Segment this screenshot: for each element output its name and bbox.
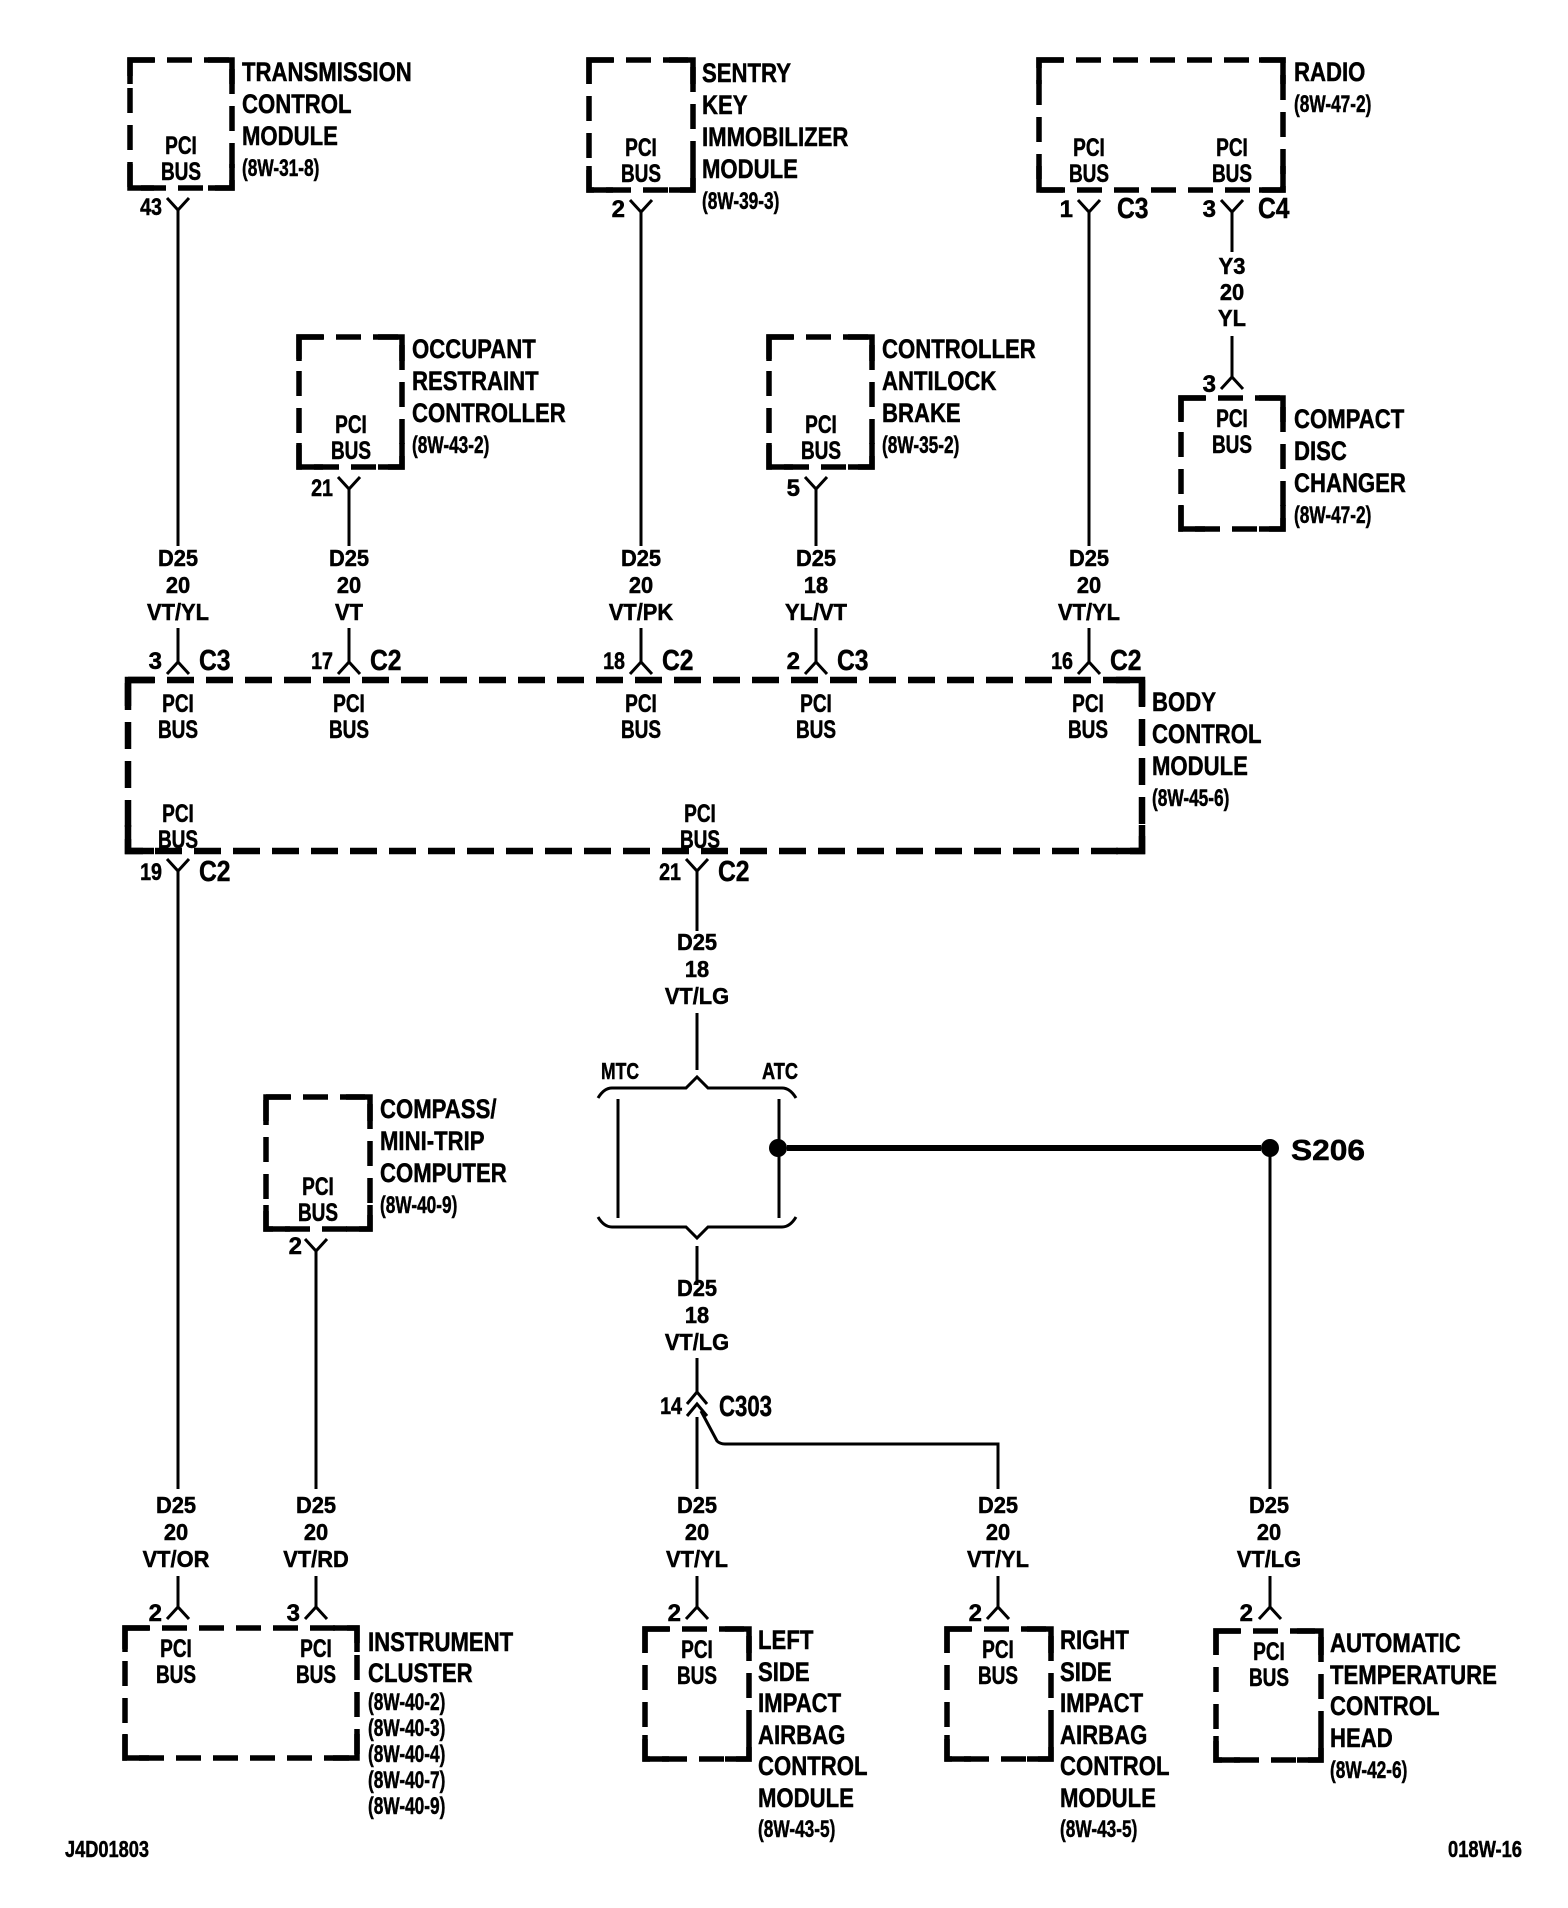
module box: right side impact airbag control module [947, 1629, 1051, 1759]
svg-text:YL/VT: YL/VT [785, 599, 847, 625]
svg-text:(8W-43-5): (8W-43-5) [1060, 1816, 1137, 1843]
wire: C303 down to left side impact airbag control module, D25 20 VT/YL [696, 1417, 699, 1489]
svg-text:Y3: Y3 [1219, 253, 1246, 279]
svg-text:BUS: BUS [801, 437, 841, 465]
svg-text:PCI: PCI [333, 690, 365, 718]
svg-text:S206: S206 [1291, 1135, 1365, 1167]
svg-text:D25: D25 [796, 545, 836, 571]
svg-text:D25: D25 [1069, 545, 1109, 571]
svg-text:BUS: BUS [158, 826, 198, 854]
wire: radio pin 1 C3 down to BCM pin 16 C2, D25 20 VT/YL [1088, 212, 1091, 546]
svg-text:C4: C4 [1258, 193, 1290, 225]
brace: option split top [598, 1077, 796, 1098]
svg-text:BUS: BUS [161, 158, 201, 186]
svg-text:C2: C2 [662, 645, 694, 677]
svg-text:2: 2 [668, 1600, 681, 1627]
svg-text:D25: D25 [158, 545, 198, 571]
module box: controller antilock brake [769, 337, 872, 467]
svg-text:VT/YL: VT/YL [666, 1546, 728, 1572]
svg-text:VT/PK: VT/PK [609, 599, 674, 625]
svg-text:D25: D25 [156, 1492, 196, 1518]
svg-text:BUS: BUS [1069, 160, 1109, 188]
wire: MTC branch vertical [617, 1099, 620, 1218]
svg-text:VT: VT [335, 599, 363, 625]
svg-text:2: 2 [149, 1600, 162, 1627]
svg-text:TRANSMISSION: TRANSMISSION [242, 57, 412, 87]
splice S206 dot [1261, 1139, 1279, 1157]
svg-text:PCI: PCI [160, 1635, 192, 1663]
svg-text:RIGHT: RIGHT [1060, 1625, 1129, 1655]
svg-text:SIDE: SIDE [1060, 1657, 1112, 1687]
svg-text:14: 14 [660, 1393, 682, 1420]
svg-text:20: 20 [337, 572, 361, 598]
svg-text:18: 18 [685, 956, 709, 982]
svg-text:COMPUTER: COMPUTER [380, 1158, 507, 1188]
wire: TCM pin 43 down to BCM pin 3 C3, D25 20 VT/YL [177, 210, 180, 546]
module box: compass/mini-trip computer [266, 1097, 370, 1229]
svg-text:TEMPERATURE: TEMPERATURE [1330, 1660, 1497, 1690]
svg-text:(8W-40-3): (8W-40-3) [368, 1715, 445, 1742]
svg-text:CHANGER: CHANGER [1294, 468, 1406, 498]
svg-text:5: 5 [787, 475, 800, 502]
svg-text:MINI-TRIP: MINI-TRIP [380, 1126, 485, 1156]
svg-text:C2: C2 [370, 645, 402, 677]
svg-text:(8W-31-8): (8W-31-8) [242, 155, 319, 182]
svg-text:IMPACT: IMPACT [758, 1688, 842, 1718]
svg-text:2: 2 [787, 648, 800, 675]
svg-text:(8W-40-9): (8W-40-9) [380, 1192, 457, 1219]
svg-text:(8W-47-2): (8W-47-2) [1294, 91, 1371, 118]
svg-text:CONTROL: CONTROL [1060, 1751, 1170, 1781]
svg-text:AIRBAG: AIRBAG [1060, 1720, 1147, 1750]
svg-text:D25: D25 [296, 1492, 336, 1518]
svg-text:(8W-40-7): (8W-40-7) [368, 1767, 445, 1794]
wire: radio pin 3 C4 down to CD changer, Y3 20 YL [1231, 212, 1234, 252]
svg-text:C2: C2 [718, 856, 750, 888]
svg-text:(8W-43-5): (8W-43-5) [758, 1816, 835, 1843]
svg-text:20: 20 [304, 1519, 328, 1545]
wire: S206 down to automatic temperature control head, D25 20 VT/LG [1269, 1148, 1272, 1489]
svg-text:20: 20 [629, 572, 653, 598]
module box: left side impact airbag control module [645, 1629, 749, 1759]
svg-text:BODY: BODY [1152, 687, 1216, 717]
svg-text:(8W-43-2): (8W-43-2) [412, 432, 489, 459]
module box: sentry key immobilizer module [589, 60, 693, 190]
svg-text:BUS: BUS [1068, 716, 1108, 744]
wire: BCM pin 21 C2 down to MTC/ATC splice, D25 18 VT/LG [696, 871, 699, 931]
svg-text:PCI: PCI [625, 134, 657, 162]
svg-text:16: 16 [1051, 648, 1073, 675]
svg-text:VT/RD: VT/RD [283, 1546, 349, 1572]
svg-text:RADIO: RADIO [1294, 57, 1365, 87]
svg-text:1: 1 [1060, 196, 1073, 223]
svg-text:PCI: PCI [300, 1635, 332, 1663]
svg-text:21: 21 [659, 859, 681, 886]
svg-text:VT/YL: VT/YL [147, 599, 209, 625]
svg-text:D25: D25 [1249, 1492, 1289, 1518]
svg-text:BUS: BUS [1249, 1664, 1289, 1692]
wire: splice to S206 horizontal [787, 1145, 1261, 1151]
svg-text:BUS: BUS [621, 160, 661, 188]
svg-text:PCI: PCI [1253, 1638, 1285, 1666]
svg-text:C2: C2 [1110, 645, 1142, 677]
svg-text:VT/YL: VT/YL [1058, 599, 1120, 625]
svg-text:BUS: BUS [331, 437, 371, 465]
svg-text:MODULE: MODULE [1060, 1783, 1156, 1813]
svg-text:PCI: PCI [1073, 134, 1105, 162]
svg-text:BUS: BUS [296, 1661, 336, 1689]
svg-text:IMPACT: IMPACT [1060, 1688, 1144, 1718]
wire: SKIM pin 2 down to BCM pin 18 C2, D25 20 VT/PK [640, 212, 643, 546]
svg-text:AUTOMATIC: AUTOMATIC [1330, 1628, 1461, 1658]
svg-text:C2: C2 [199, 856, 231, 888]
svg-text:2: 2 [289, 1233, 302, 1260]
svg-text:PCI: PCI [162, 690, 194, 718]
svg-text:D25: D25 [677, 1275, 717, 1301]
svg-text:018W-16: 018W-16 [1448, 1836, 1522, 1862]
svg-text:OCCUPANT: OCCUPANT [412, 334, 536, 364]
svg-text:D25: D25 [329, 545, 369, 571]
svg-text:(8W-35-2): (8W-35-2) [882, 432, 959, 459]
svg-text:SENTRY: SENTRY [702, 58, 791, 88]
svg-text:D25: D25 [677, 1492, 717, 1518]
svg-text:2: 2 [1240, 1600, 1253, 1627]
module box: instrument cluster [125, 1628, 357, 1758]
svg-text:BRAKE: BRAKE [882, 398, 961, 428]
svg-text:C303: C303 [719, 1391, 772, 1423]
svg-text:(8W-40-2): (8W-40-2) [368, 1689, 445, 1716]
svg-text:MODULE: MODULE [242, 121, 338, 151]
svg-text:BUS: BUS [158, 716, 198, 744]
svg-text:ATC: ATC [762, 1058, 798, 1084]
svg-text:(8W-40-4): (8W-40-4) [368, 1741, 445, 1768]
svg-text:CONTROL: CONTROL [1330, 1691, 1440, 1721]
svg-text:2: 2 [612, 196, 625, 223]
svg-text:(8W-39-3): (8W-39-3) [702, 188, 779, 215]
junction dot on ATC branch [769, 1139, 787, 1157]
svg-text:COMPASS/: COMPASS/ [380, 1094, 497, 1124]
svg-text:BUS: BUS [156, 1661, 196, 1689]
svg-text:HEAD: HEAD [1330, 1723, 1393, 1753]
svg-text:17: 17 [311, 648, 333, 675]
svg-text:C3: C3 [1117, 193, 1149, 225]
svg-text:PCI: PCI [302, 1173, 334, 1201]
svg-text:BUS: BUS [329, 716, 369, 744]
svg-text:(8W-45-6): (8W-45-6) [1152, 785, 1229, 812]
module box: automatic temperature control head [1216, 1631, 1321, 1760]
svg-text:CONTROLLER: CONTROLLER [412, 398, 566, 428]
svg-text:BUS: BUS [298, 1199, 338, 1227]
svg-text:VT/LG: VT/LG [1237, 1546, 1301, 1572]
svg-text:INSTRUMENT: INSTRUMENT [368, 1627, 514, 1657]
svg-text:PCI: PCI [684, 800, 716, 828]
svg-text:ANTILOCK: ANTILOCK [882, 366, 997, 396]
module box: compact disc changer [1181, 398, 1283, 529]
svg-text:MODULE: MODULE [1152, 751, 1248, 781]
module box: radio [1039, 60, 1283, 190]
svg-text:18: 18 [603, 648, 625, 675]
module box: occupant restraint controller [299, 337, 402, 467]
svg-text:IMMOBILIZER: IMMOBILIZER [702, 122, 848, 152]
svg-text:20: 20 [986, 1519, 1010, 1545]
svg-text:PCI: PCI [681, 1636, 713, 1664]
svg-text:PCI: PCI [1216, 405, 1248, 433]
svg-text:C3: C3 [837, 645, 869, 677]
svg-text:CONTROL: CONTROL [758, 1751, 868, 1781]
module box: body control module [128, 680, 1142, 851]
svg-text:20: 20 [164, 1519, 188, 1545]
svg-text:CONTROL: CONTROL [1152, 719, 1262, 749]
svg-text:C3: C3 [199, 645, 231, 677]
svg-text:D25: D25 [621, 545, 661, 571]
svg-text:PCI: PCI [800, 690, 832, 718]
svg-text:MODULE: MODULE [758, 1783, 854, 1813]
svg-text:PCI: PCI [625, 690, 657, 718]
svg-text:2: 2 [969, 1600, 982, 1627]
svg-text:18: 18 [685, 1302, 709, 1328]
svg-text:VT/LG: VT/LG [665, 983, 729, 1009]
svg-text:CONTROL: CONTROL [242, 89, 352, 119]
svg-text:20: 20 [1077, 572, 1101, 598]
svg-text:BUS: BUS [621, 716, 661, 744]
module box: transmission control module [130, 60, 232, 188]
svg-text:LEFT: LEFT [758, 1625, 814, 1655]
svg-text:PCI: PCI [805, 411, 837, 439]
svg-text:BUS: BUS [978, 1662, 1018, 1690]
svg-text:PCI: PCI [982, 1636, 1014, 1664]
wire: CAB pin 5 down to BCM pin 2 C3, D25 18 YL/VT [815, 489, 818, 546]
svg-text:BUS: BUS [677, 1662, 717, 1690]
svg-text:VT/YL: VT/YL [967, 1546, 1029, 1572]
svg-text:3: 3 [149, 648, 162, 675]
svg-text:DISC: DISC [1294, 436, 1347, 466]
svg-text:20: 20 [1257, 1519, 1281, 1545]
svg-text:PCI: PCI [1072, 690, 1104, 718]
svg-text:3: 3 [1203, 371, 1216, 398]
svg-text:COMPACT: COMPACT [1294, 404, 1405, 434]
svg-text:(8W-40-9): (8W-40-9) [368, 1793, 445, 1820]
svg-text:J4D01803: J4D01803 [65, 1836, 149, 1862]
svg-text:KEY: KEY [702, 90, 748, 120]
svg-text:D25: D25 [677, 929, 717, 955]
svg-text:18: 18 [804, 572, 828, 598]
wire: branch from C303 right to right side impact airbag control module [701, 1411, 998, 1489]
svg-text:YL: YL [1218, 305, 1246, 331]
svg-text:BUS: BUS [796, 716, 836, 744]
svg-text:VT/LG: VT/LG [665, 1329, 729, 1355]
svg-text:20: 20 [1220, 279, 1244, 305]
svg-text:CLUSTER: CLUSTER [368, 1658, 473, 1688]
svg-text:(8W-42-6): (8W-42-6) [1330, 1757, 1407, 1784]
wire: BCM pin 19 C2 down to instrument cluster pin 2, D25 20 VT/OR [177, 871, 180, 1489]
svg-text:CONTROLLER: CONTROLLER [882, 334, 1036, 364]
svg-text:SIDE: SIDE [758, 1657, 810, 1687]
svg-text:VT/OR: VT/OR [143, 1546, 210, 1572]
brace: option split bottom [598, 1217, 796, 1238]
svg-text:21: 21 [311, 475, 333, 502]
wire: ORC pin 21 down to BCM pin 17 C2, D25 20 VT [348, 489, 351, 546]
svg-text:20: 20 [166, 572, 190, 598]
svg-text:PCI: PCI [1216, 134, 1248, 162]
svg-text:PCI: PCI [335, 411, 367, 439]
wire: compass pin 2 down to instrument cluster pin 3, D25 20 VT/RD [315, 1251, 318, 1489]
svg-text:(8W-47-2): (8W-47-2) [1294, 502, 1371, 529]
svg-text:BUS: BUS [1212, 431, 1252, 459]
wire: splice output down to C303, D25 18 VT/LG [696, 1246, 699, 1285]
svg-text:20: 20 [685, 1519, 709, 1545]
svg-text:3: 3 [1203, 196, 1216, 223]
svg-text:3: 3 [287, 1600, 300, 1627]
svg-text:PCI: PCI [162, 800, 194, 828]
svg-text:43: 43 [140, 194, 162, 221]
svg-text:19: 19 [140, 859, 162, 886]
svg-text:MTC: MTC [601, 1058, 639, 1084]
svg-text:AIRBAG: AIRBAG [758, 1720, 845, 1750]
svg-text:PCI: PCI [165, 132, 197, 160]
svg-text:BUS: BUS [680, 826, 720, 854]
svg-text:D25: D25 [978, 1492, 1018, 1518]
svg-text:BUS: BUS [1212, 160, 1252, 188]
svg-text:RESTRAINT: RESTRAINT [412, 366, 539, 396]
wire: ATC branch vertical [778, 1099, 781, 1218]
svg-text:MODULE: MODULE [702, 154, 798, 184]
